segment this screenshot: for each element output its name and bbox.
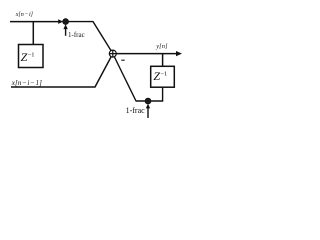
adder A1 <box>109 50 116 57</box>
wire adder to output y[n] <box>116 53 176 55</box>
svg-text:Z: Z <box>153 69 160 83</box>
multiplier M2 (1-frac feedback gain) <box>145 98 150 103</box>
svg-text:y[n]: y[n] <box>155 43 168 50</box>
svg-text:x[n − i − 1]: x[n − i − 1] <box>11 79 42 87</box>
wire branch down to left delay <box>32 22 34 45</box>
wire x[n-i-1] to adder <box>11 57 111 87</box>
gain input arrow into M1 <box>65 27 67 36</box>
svg-text:Z: Z <box>21 50 28 64</box>
svg-text:−1: −1 <box>160 70 167 77</box>
wire right delay to multiplier M2 <box>151 87 163 101</box>
wire input x[n-i] horizontal <box>10 21 61 23</box>
delay Z^-1 U2 (right) <box>151 66 175 87</box>
wire branch down to right delay <box>162 54 164 67</box>
multiplier M1 (1-frac gain) <box>63 19 68 24</box>
arrowhead into multiplier M1 <box>58 19 63 24</box>
wire M1 to adder (horizontal then diagonal) <box>68 22 111 51</box>
gain input arrow into M2 <box>147 106 149 119</box>
svg-text:−1: −1 <box>28 51 35 58</box>
wire feedback multiplier M2 to adder (diagonal) <box>114 57 145 102</box>
minus sign at feedback input <box>121 59 124 61</box>
delay Z^-1 U1 (left) <box>19 45 44 68</box>
svg-text:x[n − i]: x[n − i] <box>15 12 34 18</box>
arrowhead output <box>176 51 182 56</box>
svg-text:1-frac: 1-frac <box>68 31 85 39</box>
svg-text:1-frac: 1-frac <box>126 106 146 115</box>
